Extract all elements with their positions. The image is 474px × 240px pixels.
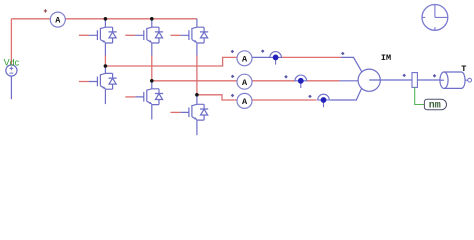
mark + of probe A: [261, 49, 265, 53]
IGBT Q6 (leg3 lower): [180, 104, 208, 120]
IGBT Q4 (leg2 lower) gate wire stub: [125, 96, 135, 98]
source Vdc: [6, 65, 17, 76]
wire: phase C ammeter to probe: [252, 99, 316, 101]
node: phase B tap: [150, 79, 154, 83]
wire: DC bus top: [11, 18, 197, 20]
wire: shaft motor to speed sensor: [369, 79, 412, 81]
voltage probe nm box: [424, 99, 446, 110]
wire: phase B motor lead: [340, 80, 359, 82]
wire: leg3 lower emitter stem: [196, 120, 198, 135]
wire: phase A motor lead: [341, 57, 362, 71]
mark + of DC ammeter: [44, 9, 47, 12]
wire: green speed signal: [415, 87, 425, 104]
svg-text:T: T: [461, 64, 466, 74]
node: phase A tap: [104, 64, 108, 68]
current probe phase A: [270, 52, 282, 58]
wire: phase B probe to motor: [307, 80, 340, 82]
svg-text:Vdc: Vdc: [4, 57, 20, 67]
node: phase C tap: [195, 93, 199, 97]
IGBT Q4 (leg2 lower): [135, 89, 163, 105]
wire: phase A probe to motor: [281, 56, 341, 58]
current probe phase B: [295, 75, 307, 81]
mark + of ammeter A1: [231, 50, 235, 54]
svg-text:nm: nm: [429, 101, 441, 112]
ammeter A0 (DC link): [50, 12, 65, 27]
IGBT Q5 (leg3 upper) gate wire stub: [170, 34, 180, 36]
svg-text:A: A: [242, 97, 248, 107]
ammeter A3 (phase C): [237, 93, 252, 108]
ammeter A2 (phase B): [237, 74, 252, 89]
wire: Vdc positive stem: [10, 19, 12, 65]
terminal node T: [468, 78, 472, 82]
wire: leg3 upper emitter stem: [196, 43, 198, 56]
IGBT Q2 (leg1 lower) gate wire stub: [79, 81, 89, 83]
clock symbol: [422, 5, 448, 31]
current probe phase C: [318, 94, 330, 100]
wire: leg2 collector stem: [151, 19, 153, 27]
wire: leg3 lower collector stem: [196, 95, 198, 105]
wire: leg1 lower collector stem: [104, 66, 106, 73]
node: bus-leg1 junction: [104, 17, 108, 21]
IGBT Q3 (leg2 upper): [135, 27, 163, 43]
wire: Vdc negative stem: [10, 76, 12, 99]
svg-text:IM: IM: [381, 53, 391, 63]
mechanical load cylinder: [444, 72, 465, 88]
mark + of ammeter A2: [231, 75, 235, 79]
speed sensor: [412, 73, 417, 88]
mark + on shaft 1: [402, 74, 406, 78]
IGBT Q1 (leg1 upper): [89, 27, 117, 43]
wire: leg2 lower emitter stem: [151, 105, 153, 120]
wire: leg2 upper emitter stem: [151, 43, 153, 56]
ammeter A1 (phase A): [237, 51, 252, 66]
wire: leg1 midpoint red: [104, 56, 106, 67]
induction machine IM: [358, 69, 380, 91]
node: bus-leg2 junction: [150, 17, 154, 21]
wire: leg3 midpoint red: [196, 56, 198, 95]
wire: phase C to ammeter: [197, 95, 237, 100]
wire: leg1 upper emitter stem: [104, 43, 106, 56]
svg-text:A: A: [242, 78, 248, 88]
IGBT Q2 (leg1 lower): [89, 73, 117, 89]
wire: load to terminal: [465, 79, 468, 81]
svg-text:A: A: [55, 16, 61, 26]
mark + of probe B: [284, 75, 288, 79]
mark + of motor stator: [341, 52, 345, 56]
wire: leg1 lower emitter stem: [104, 89, 106, 104]
wire: phase A to ammeter: [105, 57, 236, 66]
mark + of probe C: [308, 95, 312, 99]
mark + on shaft 2: [433, 74, 437, 78]
wire: leg2 midpoint red: [151, 56, 153, 81]
wire: phase B to ammeter: [152, 80, 237, 82]
wire: shaft sensor to load: [417, 79, 444, 81]
wire: leg3 collector stem: [196, 19, 198, 27]
mark + of ammeter A3: [231, 94, 235, 98]
IGBT Q1 (leg1 upper) gate wire stub: [79, 34, 89, 36]
wire: phase C motor lead: [330, 88, 362, 100]
wire: phase B ammeter to probe: [252, 80, 295, 82]
IGBT Q6 (leg3 lower) gate wire stub: [170, 111, 180, 113]
wire: leg1 collector stem: [104, 19, 106, 27]
svg-text:A: A: [242, 54, 248, 64]
wire: leg2 lower collector stem: [151, 81, 153, 89]
wire: phase A ammeter-probe blue: [252, 56, 270, 58]
IGBT Q3 (leg2 upper) gate wire stub: [125, 34, 135, 36]
IGBT Q5 (leg3 upper): [180, 27, 208, 43]
